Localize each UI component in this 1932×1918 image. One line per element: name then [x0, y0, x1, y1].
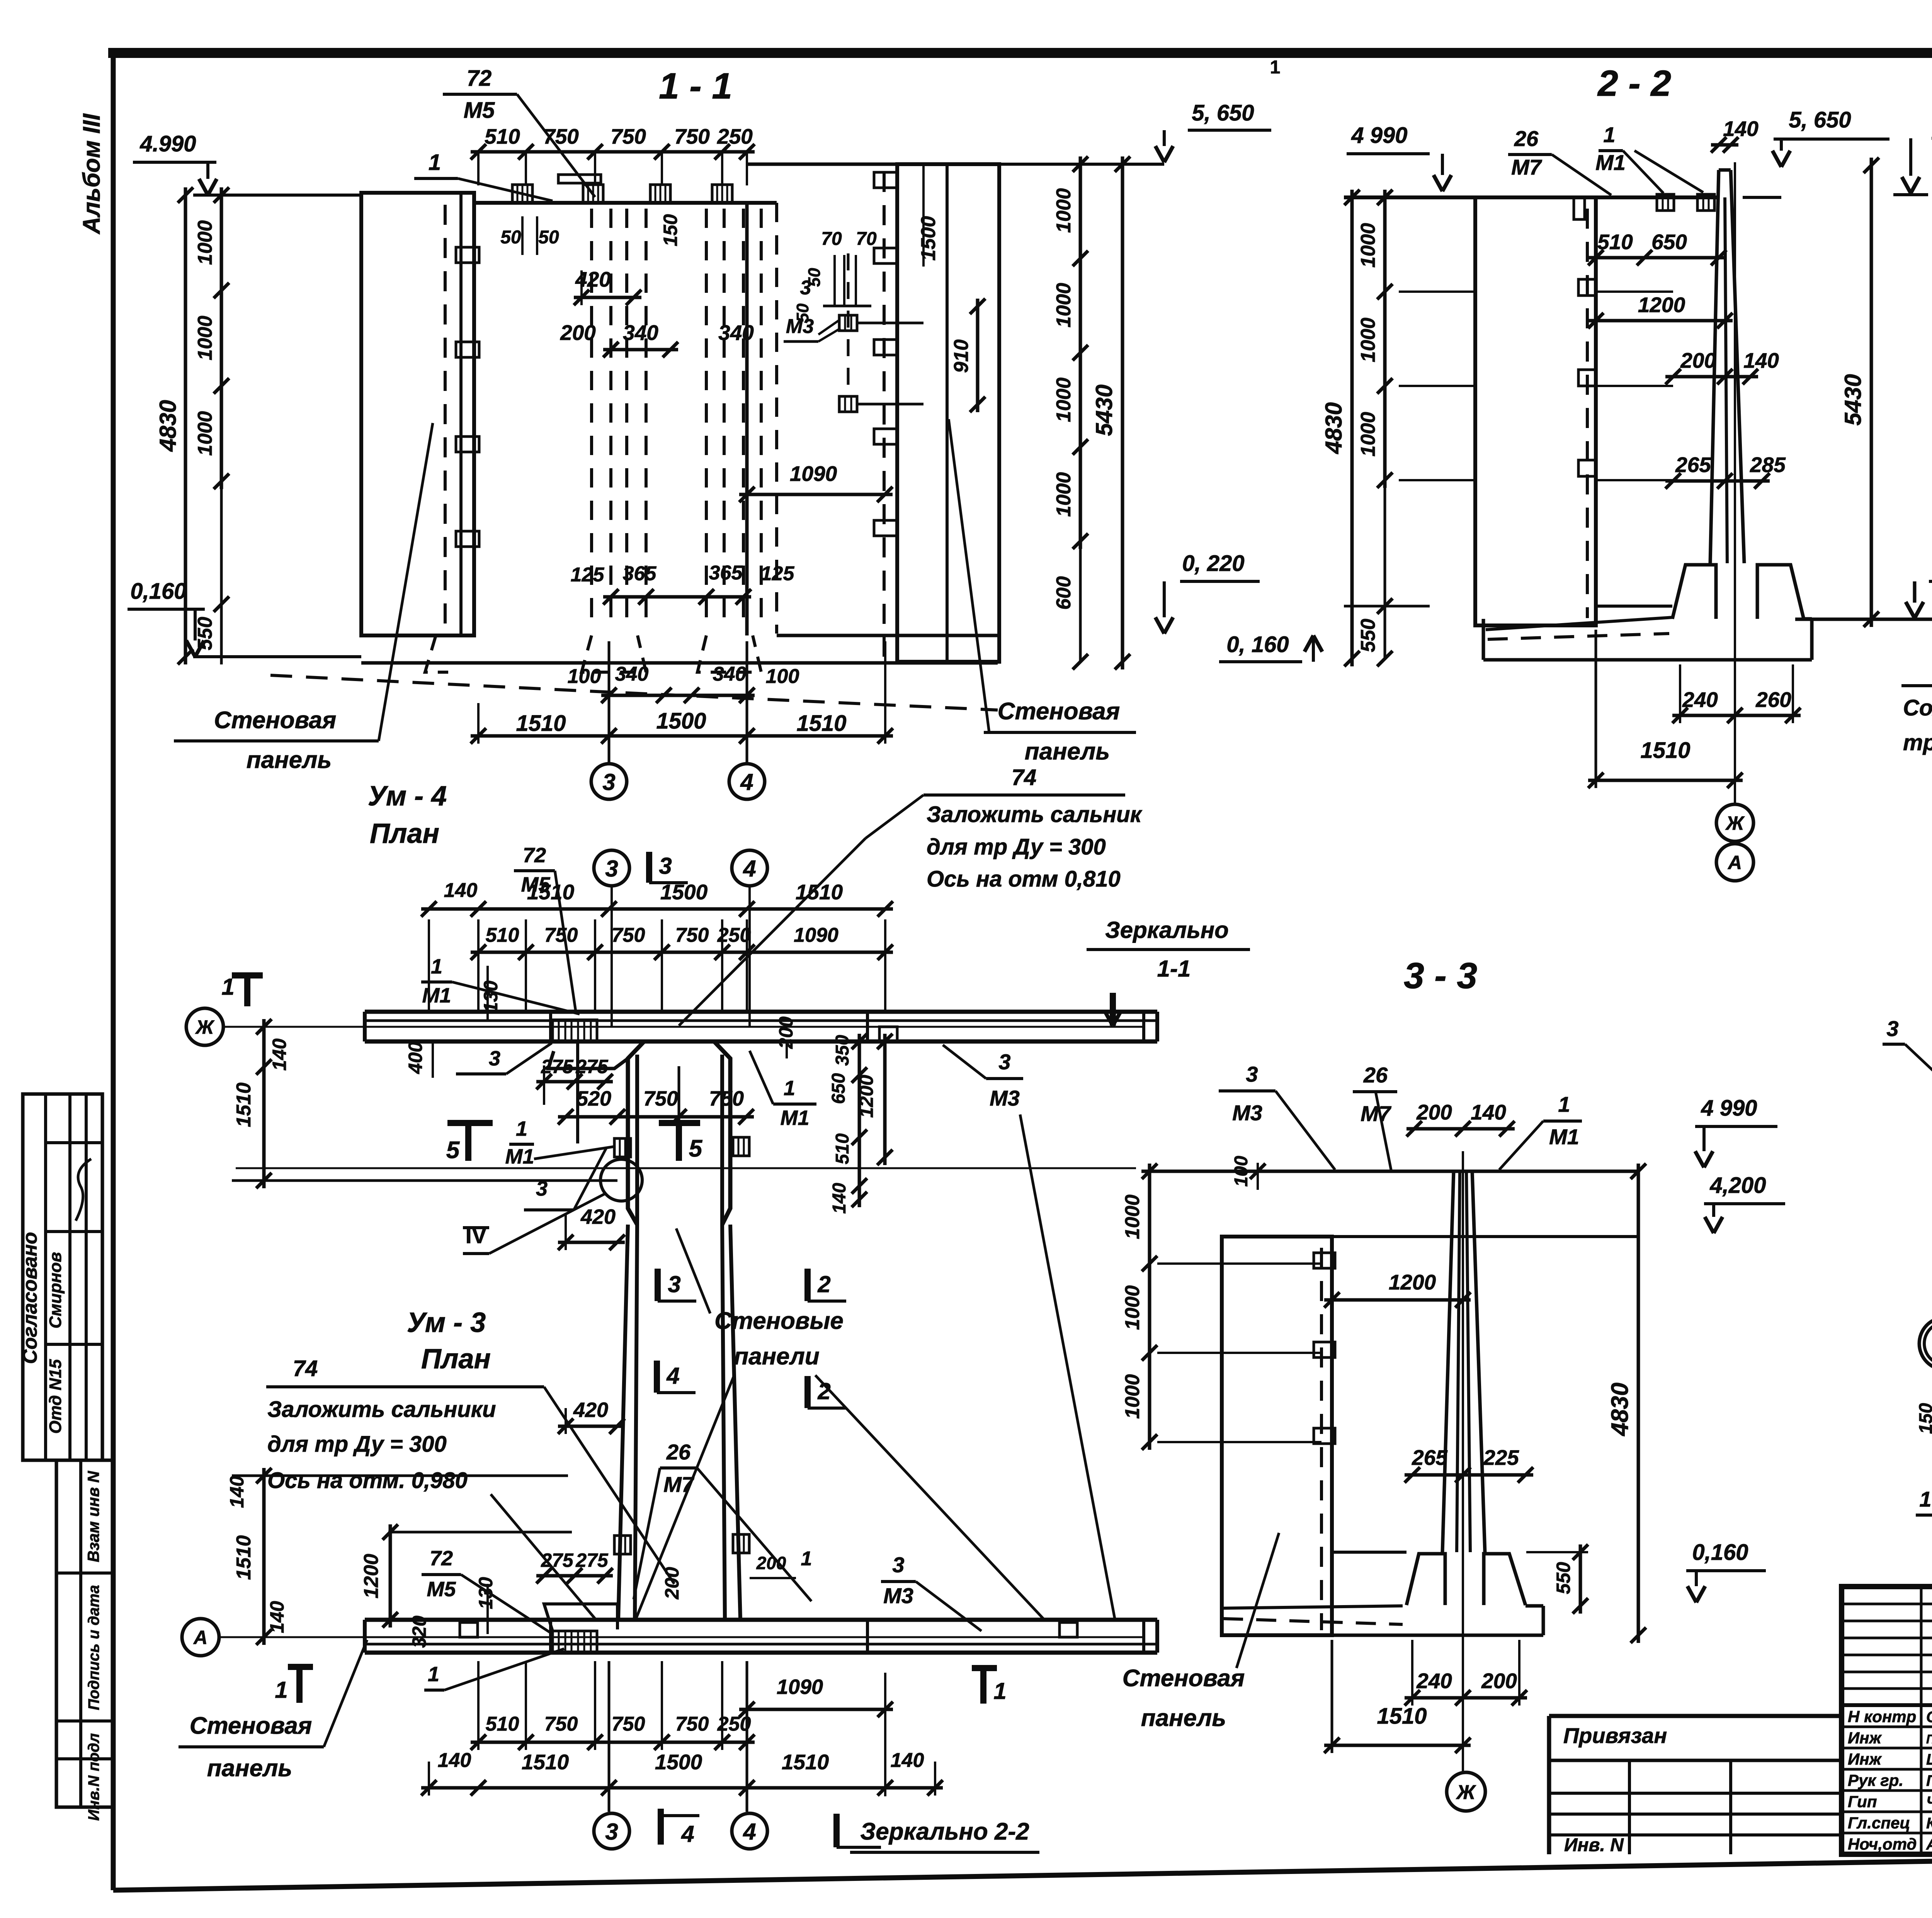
svg-text:2: 2	[817, 1378, 830, 1404]
svg-text:3: 3	[668, 1271, 680, 1297]
grid bubble 3 (Um-4)	[594, 850, 629, 886]
svg-text:Стеновая: Стеновая	[190, 1712, 312, 1739]
svg-text:1500: 1500	[660, 880, 708, 904]
svg-text:3: 3	[536, 1177, 548, 1200]
svg-text:200: 200	[1680, 348, 1716, 372]
svg-text:140: 140	[1471, 1100, 1506, 1124]
svg-text:125: 125	[571, 564, 605, 586]
svg-text:Ж: Ж	[1456, 1781, 1476, 1804]
section marks 5 (Um-4)	[447, 1120, 493, 1126]
svg-text:3: 3	[892, 1553, 904, 1577]
svg-text:для тр Ду = 300: для тр Ду = 300	[927, 834, 1106, 860]
svg-text:3: 3	[659, 853, 672, 879]
grid bubble 4 (Um-4)	[732, 850, 767, 886]
vertical dim 4830 (3-3)	[1637, 1164, 1640, 1643]
svg-text:2: 2	[817, 1271, 830, 1297]
svg-text:5: 5	[689, 1135, 703, 1162]
anchor pad M5 (Um-3)	[553, 1631, 597, 1653]
svg-text:1: 1	[993, 1678, 1006, 1704]
svg-text:тр. Ду = 300: тр. Ду = 300	[1903, 730, 1932, 755]
svg-text:400: 400	[405, 1041, 426, 1074]
svg-text:100: 100	[1231, 1156, 1252, 1187]
svg-text:4 990: 4 990	[1701, 1096, 1757, 1121]
svg-text:1000: 1000	[1121, 1374, 1144, 1419]
svg-text:0, 220: 0, 220	[1182, 551, 1244, 576]
grid bubble Zh (2-2)	[1716, 804, 1753, 841]
detail circle IV (Um-4)	[600, 1159, 642, 1201]
svg-text:панель: панель	[247, 747, 332, 773]
svg-text:200: 200	[661, 1567, 683, 1600]
svg-text:1510: 1510	[796, 880, 843, 904]
svg-text:3: 3	[800, 277, 811, 299]
mirror note 2-2 (Um-3)	[833, 1814, 840, 1847]
svg-text:1: 1	[275, 1677, 287, 1703]
grid bubble A (2-2)	[1716, 844, 1753, 881]
svg-text:250: 250	[717, 124, 753, 148]
svg-text:1 - 1: 1 - 1	[659, 66, 732, 107]
svg-text:0, 160: 0, 160	[1226, 632, 1289, 657]
svg-text:4: 4	[681, 1821, 694, 1847]
svg-text:5430: 5430	[1840, 374, 1866, 425]
svg-text:Гарбуз: Гарбуз	[1926, 1772, 1932, 1789]
vertical chain 1000s (2-2)	[1383, 190, 1387, 488]
svg-text:365: 365	[709, 562, 743, 584]
svg-text:1: 1	[516, 1117, 527, 1140]
section mark 4 bottom (Um-3)	[658, 1809, 664, 1845]
svg-text:550: 550	[1357, 619, 1379, 652]
wall panel (2-2)	[1475, 197, 1596, 625]
svg-text:1090: 1090	[794, 924, 838, 946]
svg-text:3 - 3: 3 - 3	[1404, 955, 1477, 996]
svg-text:Зеркально: Зеркально	[1105, 917, 1229, 943]
svg-text:1510: 1510	[782, 1750, 829, 1774]
svg-text:Заложить сальник: Заложить сальник	[927, 802, 1143, 827]
svg-text:200: 200	[560, 321, 596, 345]
svg-text:910: 910	[950, 340, 973, 373]
svg-text:М1: М1	[1595, 150, 1626, 175]
svg-text:750: 750	[611, 124, 646, 148]
svg-text:100: 100	[766, 665, 799, 688]
section mark 3 bottom (Um-4)	[655, 1269, 661, 1301]
svg-text:Инж: Инж	[1848, 1729, 1882, 1747]
svg-text:26: 26	[1363, 1063, 1388, 1087]
svg-text:510: 510	[486, 924, 519, 946]
svg-text:1-1: 1-1	[1157, 956, 1191, 982]
svg-text:750: 750	[544, 1713, 578, 1735]
svg-text:320: 320	[408, 1616, 430, 1648]
svg-text:70: 70	[821, 229, 842, 249]
svg-text:1510: 1510	[1640, 738, 1690, 763]
monolith wall top line (1-1)	[474, 201, 777, 205]
svg-text:265: 265	[1412, 1446, 1448, 1470]
svg-text:1: 1	[429, 150, 441, 175]
svg-text:5: 5	[446, 1137, 460, 1164]
svg-text:3: 3	[605, 1819, 618, 1845]
svg-text:4: 4	[666, 1363, 679, 1389]
svg-text:650: 650	[1651, 230, 1687, 254]
svg-text:А: А	[1727, 852, 1742, 873]
svg-text:Инж: Инж	[1848, 1750, 1882, 1768]
svg-text:5, 650: 5, 650	[1192, 100, 1254, 126]
wall panel left (1-1)	[361, 193, 474, 635]
svg-text:240: 240	[1416, 1669, 1452, 1693]
svg-text:Козловичер: Козловичер	[1926, 1815, 1932, 1832]
svg-text:1000: 1000	[1357, 318, 1379, 362]
svg-text:1000: 1000	[1121, 1285, 1144, 1330]
svg-text:1: 1	[431, 955, 442, 978]
svg-text:1200: 1200	[360, 1554, 383, 1599]
svg-text:74: 74	[1012, 765, 1037, 790]
svg-text:140: 140	[829, 1183, 850, 1214]
svg-text:А: А	[193, 1627, 207, 1648]
svg-text:350: 350	[832, 1035, 853, 1066]
svg-text:1: 1	[1558, 1092, 1570, 1116]
svg-text:650: 650	[828, 1073, 849, 1104]
svg-text:1: 1	[1919, 1487, 1931, 1511]
svg-text:3: 3	[602, 769, 615, 795]
bottom slab (2-2)	[1483, 618, 1672, 619]
svg-text:1: 1	[221, 974, 234, 1000]
anchor pads on pylon (Um-4)	[614, 1138, 631, 1157]
svg-text:панель: панель	[1025, 738, 1110, 765]
svg-text:Цветково: Цветково	[1926, 1751, 1932, 1768]
svg-text:3: 3	[1246, 1062, 1258, 1086]
vertical dim 4830 (1-1)	[184, 187, 187, 664]
pylon tapered wall (2-2)	[1710, 170, 1719, 563]
section mark 2 top (Um-3)	[804, 1376, 811, 1408]
svg-text:130: 130	[480, 980, 502, 1013]
svg-text:Ноч,отд: Ноч,отд	[1848, 1835, 1917, 1853]
svg-text:150: 150	[660, 214, 681, 246]
svg-text:Отд N15: Отд N15	[46, 1359, 65, 1434]
grid bubble 3 (1-1)	[591, 764, 627, 799]
foundation (3-3)	[1406, 1554, 1445, 1605]
svg-text:Взам инв N: Взам инв N	[84, 1470, 102, 1562]
svg-text:140: 140	[438, 1749, 471, 1772]
svg-text:4.990: 4.990	[139, 131, 196, 156]
bottom slab (1-1)	[361, 634, 437, 637]
dashed formwork lines (1-1)	[590, 209, 593, 630]
svg-text:2 - 2: 2 - 2	[1597, 63, 1671, 104]
svg-text:Стеновые: Стеновые	[714, 1308, 844, 1334]
grid tie lines (2-2)	[1399, 291, 1475, 293]
svg-text:4: 4	[743, 856, 756, 882]
section mark 3 top (Um-4)	[646, 852, 652, 883]
anchor pads mid (Um-3)	[614, 1536, 631, 1554]
svg-text:Смирнов: Смирнов	[46, 1252, 65, 1328]
panel top line 4.200 (3-3)	[1222, 1235, 1638, 1238]
svg-text:1000: 1000	[1053, 188, 1075, 233]
svg-text:750: 750	[612, 1713, 645, 1735]
svg-text:750: 750	[709, 1087, 744, 1110]
vertical chain 1000s right (1-1)	[1079, 156, 1082, 549]
svg-text:Ж: Ж	[1725, 812, 1745, 834]
vertical dim 4830 (2-2)	[1350, 190, 1354, 666]
svg-text:1000: 1000	[194, 316, 216, 360]
svg-text:340: 340	[623, 321, 658, 345]
svg-text:1510: 1510	[233, 1535, 255, 1580]
foundation (2-2)	[1672, 565, 1716, 619]
grid bubble 3 (Um-3)	[594, 1813, 629, 1849]
svg-text:М3: М3	[1232, 1101, 1262, 1125]
svg-text:340: 340	[713, 663, 747, 685]
svg-text:4 990: 4 990	[1351, 123, 1407, 148]
svg-text:3: 3	[1886, 1016, 1898, 1041]
svg-text:М5: М5	[521, 873, 550, 896]
svg-text:Ж: Ж	[195, 1016, 215, 1038]
svg-text:М7: М7	[1361, 1101, 1392, 1126]
svg-text:50: 50	[538, 227, 559, 248]
svg-text:План: План	[421, 1344, 491, 1374]
svg-text:1200: 1200	[1638, 293, 1685, 317]
pylon hexagon (Um-4)	[628, 1041, 644, 1225]
svg-text:1510: 1510	[233, 1082, 255, 1127]
svg-text:150: 150	[1916, 1403, 1932, 1434]
svg-text:750: 750	[674, 124, 710, 148]
panel top line (2-2)	[1344, 195, 1719, 199]
svg-text:Чирков: Чирков	[1926, 1794, 1932, 1811]
svg-text:Семеново: Семеново	[1926, 1709, 1932, 1726]
svg-text:Заложить сальники: Заложить сальники	[267, 1397, 496, 1422]
svg-text:Подпись и дата: Подпись и дата	[85, 1585, 102, 1710]
svg-text:Инв.N подл: Инв.N подл	[85, 1733, 102, 1821]
svg-text:Стеновая: Стеновая	[214, 707, 337, 734]
svg-text:для тр Ду = 300: для тр Ду = 300	[267, 1432, 447, 1457]
svg-text:260: 260	[1755, 688, 1791, 712]
svg-text:1: 1	[1603, 122, 1615, 147]
svg-text:панель: панель	[1141, 1705, 1226, 1731]
svg-text:550: 550	[194, 617, 216, 651]
svg-text:Стеновая: Стеновая	[998, 698, 1120, 725]
svg-text:510: 510	[485, 124, 520, 148]
svg-text:1500: 1500	[917, 216, 940, 261]
svg-text:750: 750	[612, 924, 645, 946]
svg-text:Зеркально 2-2: Зеркально 2-2	[860, 1818, 1029, 1845]
svg-text:1000: 1000	[1053, 377, 1075, 422]
svg-text:1: 1	[801, 1548, 812, 1570]
svg-text:План: План	[370, 818, 439, 849]
svg-text:5, 650: 5, 650	[1789, 107, 1851, 133]
axis bubble A (Um-3)	[182, 1619, 219, 1656]
svg-text:4: 4	[743, 1819, 756, 1845]
svg-text:1000: 1000	[1357, 412, 1379, 457]
svg-text:4830: 4830	[1607, 1383, 1633, 1437]
svg-text:72: 72	[467, 66, 492, 91]
svg-text:750: 750	[675, 1713, 709, 1735]
svg-text:70: 70	[856, 229, 877, 249]
svg-text:Петропавловская: Петропавловская	[1926, 1732, 1932, 1746]
svg-text:панель: панель	[207, 1755, 292, 1782]
svg-text:26: 26	[1514, 126, 1539, 151]
svg-text:Сольник для: Сольник для	[1903, 695, 1932, 720]
anchor pads on top (1-1)	[512, 185, 532, 202]
svg-text:140: 140	[269, 1038, 290, 1071]
svg-text:125: 125	[761, 562, 795, 585]
svg-text:130: 130	[475, 1577, 497, 1609]
svg-text:М1: М1	[780, 1106, 809, 1130]
bottom slab (3-3)	[1222, 1605, 1406, 1606]
svg-text:3: 3	[605, 856, 618, 882]
svg-text:Ум - 4: Ум - 4	[368, 781, 447, 812]
pravyazan table	[1549, 1716, 1842, 1854]
level line 0.220 shared (2-2)	[1795, 618, 1932, 621]
wall panel (3-3)	[1222, 1237, 1332, 1635]
svg-text:Привязан: Привязан	[1563, 1723, 1667, 1748]
svg-text:Альбом III: Альбом III	[78, 113, 105, 235]
svg-text:200: 200	[1481, 1669, 1517, 1693]
svg-text:140: 140	[1723, 117, 1759, 141]
svg-text:М1: М1	[505, 1145, 534, 1168]
svg-text:1000: 1000	[1121, 1194, 1144, 1239]
svg-text:275: 275	[541, 1056, 574, 1077]
wall panel right (1-1)	[747, 163, 897, 166]
svg-text:Ось на отм. 0,980: Ось на отм. 0,980	[267, 1468, 468, 1493]
svg-text:4830: 4830	[1321, 402, 1347, 454]
svg-text:225: 225	[1483, 1446, 1519, 1470]
svg-text:М3: М3	[883, 1583, 913, 1608]
wall band (Um-3)	[365, 1618, 1157, 1622]
svg-text:1: 1	[784, 1077, 795, 1100]
svg-text:750: 750	[544, 924, 578, 946]
detail II bubble	[1919, 1317, 1932, 1370]
vertical dim 5430 (2-2)	[1870, 158, 1873, 627]
svg-text:340: 340	[718, 321, 754, 345]
section mark 1 left (Um-4)	[244, 975, 250, 1006]
svg-text:1: 1	[428, 1663, 439, 1686]
svg-text:М1: М1	[1549, 1125, 1579, 1149]
pylon tapered wall (3-3)	[1442, 1171, 1454, 1552]
vertical chain 1000s (1-1)	[220, 187, 223, 489]
svg-text:4,200: 4,200	[1709, 1173, 1766, 1198]
svg-text:3: 3	[489, 1047, 500, 1070]
svg-text:1090: 1090	[777, 1675, 823, 1699]
vertical dim 5430 (1-1)	[1121, 156, 1124, 669]
svg-text:Гл.спец: Гл.спец	[1848, 1814, 1910, 1832]
svg-text:1000: 1000	[1053, 472, 1075, 517]
pylon channel walls between plans	[618, 1225, 628, 1620]
svg-text:1510: 1510	[522, 1750, 569, 1774]
svg-text:420: 420	[580, 1205, 616, 1228]
svg-text:550: 550	[1553, 1562, 1574, 1594]
svg-text:1000: 1000	[1053, 283, 1075, 328]
anchor pad M5 (Um-4)	[553, 1020, 597, 1041]
section mark 1 left (Um-3)	[296, 1667, 303, 1703]
svg-text:340: 340	[615, 663, 649, 685]
svg-text:4: 4	[740, 769, 753, 795]
svg-text:72: 72	[523, 844, 546, 867]
svg-text:1: 1	[1270, 57, 1281, 78]
svg-text:Гип: Гип	[1848, 1792, 1877, 1811]
section mark 4 top (Um-3)	[654, 1361, 660, 1393]
svg-text:420: 420	[573, 1398, 608, 1422]
wall band (Um-4)	[365, 1010, 1157, 1014]
svg-text:М7: М7	[663, 1472, 695, 1497]
svg-text:4830: 4830	[155, 400, 181, 452]
svg-text:510: 510	[486, 1713, 519, 1735]
svg-text:275: 275	[541, 1549, 574, 1571]
svg-text:3: 3	[998, 1050, 1010, 1074]
section mark 1 right (Um-3)	[980, 1668, 986, 1704]
svg-text:1510: 1510	[796, 711, 846, 736]
svg-text:Согласовано: Согласовано	[19, 1232, 41, 1364]
svg-text:Инв. N: Инв. N	[1564, 1835, 1624, 1855]
svg-text:140: 140	[226, 1476, 248, 1508]
svg-text:1510: 1510	[1377, 1704, 1427, 1729]
svg-text:Стеновая: Стеновая	[1122, 1665, 1245, 1692]
stamp table inventory	[56, 1460, 113, 1807]
svg-text:1000: 1000	[194, 411, 216, 456]
grid bubble Zh (3-3)	[1447, 1772, 1485, 1811]
svg-text:1200: 1200	[1389, 1270, 1436, 1294]
svg-text:М5: М5	[464, 98, 495, 123]
svg-text:750: 750	[543, 124, 579, 148]
svg-text:панели: панели	[734, 1343, 819, 1370]
svg-text:100: 100	[568, 665, 601, 688]
svg-text:140: 140	[1743, 348, 1779, 372]
svg-text:140: 140	[891, 1749, 924, 1772]
svg-text:1000: 1000	[194, 220, 216, 265]
top line 4.990 (3-3)	[1141, 1170, 1638, 1173]
svg-text:200: 200	[1416, 1100, 1452, 1124]
svg-text:М5: М5	[427, 1578, 456, 1601]
svg-text:510: 510	[832, 1133, 853, 1164]
axis bubble Zh (Um-4)	[186, 1008, 223, 1045]
svg-text:140: 140	[444, 879, 478, 902]
svg-text:0,160: 0,160	[130, 579, 186, 604]
svg-text:1510: 1510	[516, 711, 566, 736]
svg-text:1500: 1500	[656, 708, 706, 734]
svg-text:750: 750	[675, 924, 709, 946]
svg-text:74: 74	[293, 1356, 318, 1381]
section mark 2 bottom (Um-4)	[804, 1269, 811, 1301]
left chain 1000s (3-3)	[1148, 1164, 1151, 1450]
svg-text:140: 140	[266, 1601, 288, 1633]
svg-text:520: 520	[577, 1087, 611, 1110]
svg-text:Альтшуллер: Альтшуллер	[1926, 1836, 1932, 1853]
svg-text:Н контр: Н контр	[1848, 1707, 1916, 1726]
svg-text:М3: М3	[786, 315, 814, 338]
svg-text:Ось на отм 0,810: Ось на отм 0,810	[927, 866, 1121, 892]
svg-text:72: 72	[430, 1547, 453, 1570]
grid bubble 4 (Um-3)	[732, 1813, 767, 1849]
svg-text:0,160: 0,160	[1692, 1540, 1748, 1565]
svg-text:200: 200	[756, 1553, 786, 1573]
svg-text:1000: 1000	[1357, 223, 1379, 268]
svg-text:750: 750	[643, 1087, 678, 1110]
svg-text:М3: М3	[990, 1086, 1020, 1110]
title block frame	[1842, 1587, 1932, 1854]
svg-text:Рук гр.: Рук гр.	[1848, 1771, 1903, 1789]
svg-text:50: 50	[500, 227, 521, 248]
stamp table Soglasovano	[23, 1094, 102, 1460]
svg-text:1090: 1090	[790, 462, 837, 486]
grid bubble 4 (1-1)	[729, 764, 765, 799]
svg-text:5430: 5430	[1091, 384, 1117, 436]
svg-text:26: 26	[666, 1440, 691, 1464]
svg-text:600: 600	[1053, 576, 1075, 610]
svg-text:Ум - 3: Ум - 3	[407, 1307, 486, 1338]
svg-text:365: 365	[623, 562, 657, 585]
svg-text:М7: М7	[1511, 155, 1543, 179]
svg-text:М1: М1	[422, 984, 451, 1007]
tie throat lines (Um-4)	[576, 1041, 579, 1143]
svg-text:1500: 1500	[655, 1750, 702, 1774]
